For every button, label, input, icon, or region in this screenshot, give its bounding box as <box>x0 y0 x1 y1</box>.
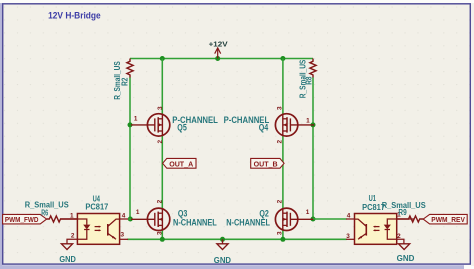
transistor Q5 <box>131 114 170 136</box>
ground symbol below U4 pin 2 <box>61 244 72 250</box>
wire +12V top rail <box>130 58 313 60</box>
svg-text:1: 1 <box>306 209 310 216</box>
svg-text:OUT_A: OUT_A <box>169 159 194 168</box>
svg-text:4: 4 <box>122 213 126 220</box>
svg-text:OUT_B: OUT_B <box>254 159 278 168</box>
wire right gate rail <box>312 78 314 220</box>
transistor Q3 <box>131 208 170 230</box>
junction Q5 drain on +12V rail <box>160 56 165 61</box>
optocoupler U1 PC817 <box>346 214 414 245</box>
svg-text:2: 2 <box>157 140 164 144</box>
svg-text:2: 2 <box>156 199 163 203</box>
global label OUT_A <box>163 158 196 168</box>
junction Q3 source on GND rail <box>160 237 165 242</box>
svg-text:3: 3 <box>276 106 283 110</box>
svg-text:PWM_FWD: PWM_FWD <box>5 215 39 224</box>
svg-text:3: 3 <box>276 231 283 235</box>
transistor Q2 <box>275 208 314 230</box>
ground symbol center rail <box>217 239 228 249</box>
wire U4 pin4 to gate node <box>128 218 131 220</box>
svg-text:R2: R2 <box>119 77 129 85</box>
svg-text:1: 1 <box>136 209 140 216</box>
svg-text:2: 2 <box>276 140 283 144</box>
transistor Q4 <box>275 114 314 136</box>
svg-text:N-CHANNEL: N-CHANNEL <box>226 218 270 228</box>
wire Q2 source to GND rail <box>282 230 284 239</box>
wire U1 pin4 to right gate node <box>313 218 347 220</box>
svg-text:R9: R9 <box>398 207 406 217</box>
svg-text:PWM_REV: PWM_REV <box>431 215 465 224</box>
wire GND bottom rail <box>127 238 346 240</box>
optocoupler U4 PC817 <box>60 214 128 245</box>
svg-text:3: 3 <box>157 106 164 110</box>
svg-text:1: 1 <box>134 116 138 123</box>
junction GND tap <box>220 237 225 242</box>
junction Q4 gate <box>311 122 316 127</box>
global label PWM_REV <box>423 214 467 224</box>
junction right gate node <box>311 217 316 222</box>
junction Q4 drain on +12V rail <box>280 56 285 61</box>
resistor R8 <box>310 59 316 78</box>
svg-text:+12V: +12V <box>209 40 228 49</box>
svg-text:GND: GND <box>397 253 415 263</box>
junction Q2 source on GND rail <box>280 237 285 242</box>
power symbol +12V <box>215 48 221 59</box>
wire Q5 drain to +12V <box>161 59 163 114</box>
ground symbol below U1 pin 2 <box>399 244 410 250</box>
svg-text:2: 2 <box>71 233 75 240</box>
svg-text:12V H-Bridge: 12V H-Bridge <box>48 11 101 22</box>
global label PWM_FWD <box>3 214 47 224</box>
svg-text:R8: R8 <box>303 76 313 84</box>
wire left gate rail <box>129 78 131 220</box>
wire node OUT_B (Q4 source to Q2 drain) <box>282 136 284 208</box>
svg-text:1: 1 <box>70 213 74 220</box>
svg-text:N-CHANNEL: N-CHANNEL <box>173 218 217 228</box>
resistor R9 <box>397 216 424 222</box>
wire Q4 drain to +12V <box>282 59 284 114</box>
junction left gate node <box>128 217 133 222</box>
svg-text:R6: R6 <box>41 208 48 218</box>
svg-text:2: 2 <box>397 233 401 240</box>
junction +12V tap <box>215 56 220 61</box>
wire node OUT_A (Q5 source to Q3 drain) <box>161 136 163 208</box>
global label OUT_B <box>251 158 284 168</box>
svg-text:Q5: Q5 <box>177 123 187 133</box>
svg-text:1: 1 <box>306 118 310 125</box>
svg-text:4: 4 <box>347 212 351 219</box>
svg-text:3: 3 <box>156 231 163 235</box>
wire Q3 source to GND rail <box>161 230 163 239</box>
svg-text:2: 2 <box>276 199 283 203</box>
resistor R6 <box>47 216 78 222</box>
junction Q5 gate <box>128 122 133 127</box>
svg-text:GND: GND <box>214 255 231 265</box>
svg-text:3: 3 <box>121 232 125 239</box>
svg-text:Q4: Q4 <box>259 123 269 133</box>
svg-text:PC817: PC817 <box>85 201 108 211</box>
svg-text:GND: GND <box>59 254 75 264</box>
svg-text:3: 3 <box>346 233 350 240</box>
resistor R2 <box>127 59 133 78</box>
